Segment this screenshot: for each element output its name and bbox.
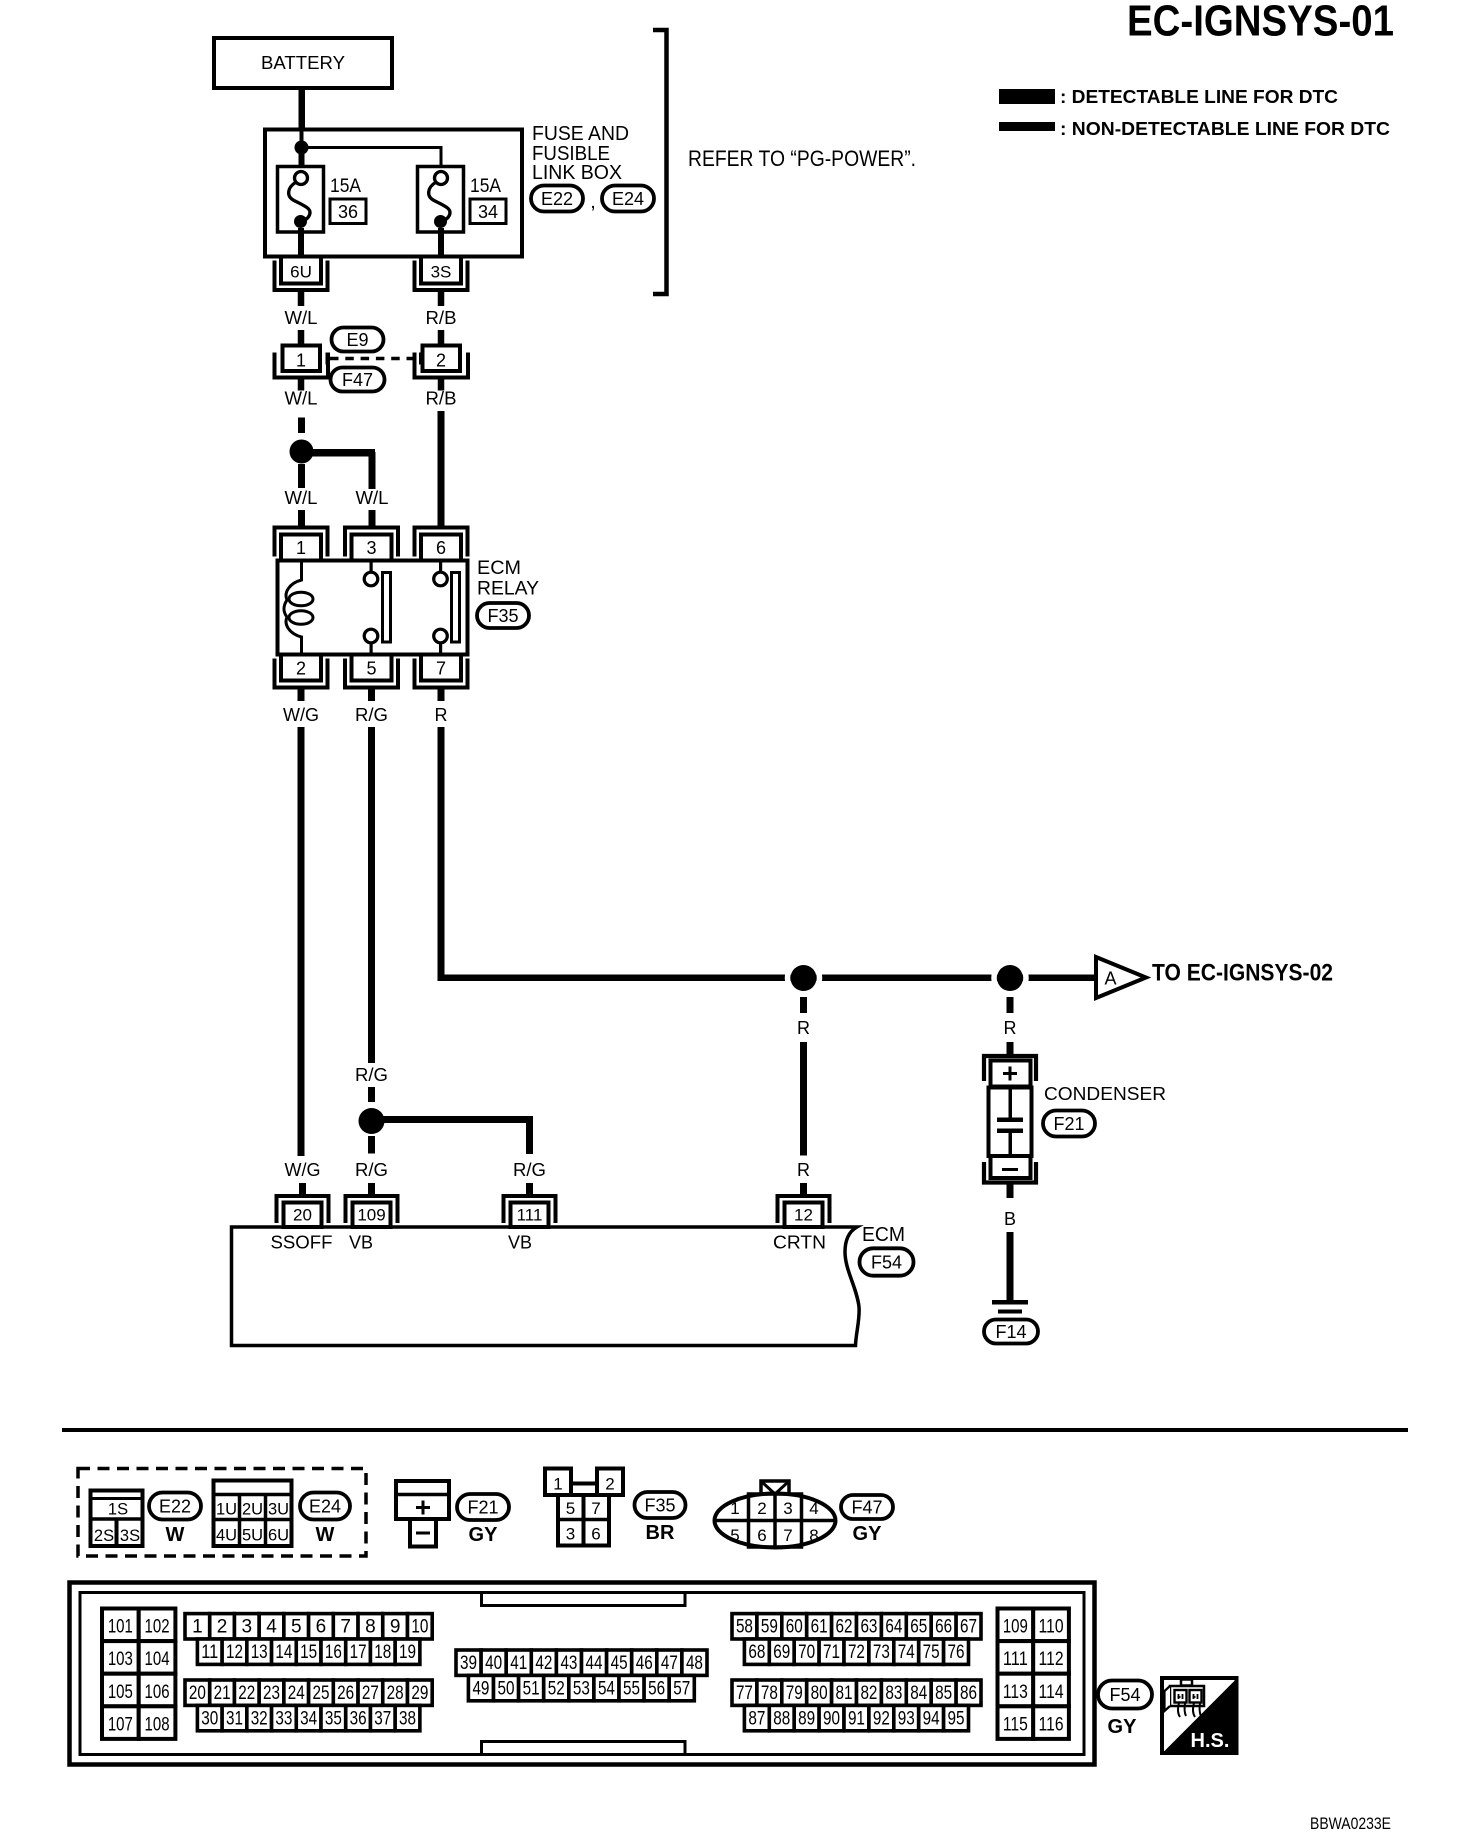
wire R/G stub into 111 xyxy=(526,1183,533,1195)
svg-text:: NON-DETECTABLE LINE FOR DTC: : NON-DETECTABLE LINE FOR DTC xyxy=(1060,119,1390,139)
svg-text:4: 4 xyxy=(809,1499,818,1518)
svg-text:W/G: W/G xyxy=(283,705,319,725)
wire condenser stub below xyxy=(1007,1184,1014,1198)
connector E24 oval xyxy=(602,186,654,212)
wire R stub into pin 12 xyxy=(800,1183,807,1195)
svg-text:67: 67 xyxy=(960,1617,977,1638)
svg-text:46: 46 xyxy=(636,1653,653,1674)
svg-text:LINK BOX: LINK BOX xyxy=(532,162,622,184)
connector E24 view oval xyxy=(300,1493,350,1520)
svg-text:35: 35 xyxy=(325,1708,342,1729)
connector E22 oval xyxy=(531,186,583,212)
svg-text:110: 110 xyxy=(1039,1617,1064,1638)
connector view F35 xyxy=(545,1469,571,1496)
svg-text:5: 5 xyxy=(366,659,376,679)
svg-text:R/B: R/B xyxy=(426,389,457,409)
connector view E24 xyxy=(214,1481,292,1547)
svg-text:VB: VB xyxy=(349,1233,373,1253)
svg-text:63: 63 xyxy=(860,1617,877,1638)
svg-text:54: 54 xyxy=(598,1678,615,1699)
svg-text:25: 25 xyxy=(312,1683,329,1704)
svg-text:12: 12 xyxy=(226,1642,243,1663)
relay pin 3 xyxy=(345,528,398,557)
svg-text:84: 84 xyxy=(910,1683,927,1704)
svg-text:26: 26 xyxy=(337,1683,354,1704)
svg-text:E22: E22 xyxy=(541,189,573,209)
wire R stub to condenser xyxy=(1007,1042,1014,1055)
wire R/G branch to VB 111 xyxy=(372,1116,534,1123)
svg-text:14: 14 xyxy=(275,1642,292,1663)
wire 3S stub xyxy=(438,290,445,306)
svg-text:6: 6 xyxy=(591,1525,600,1544)
condenser minus terminal xyxy=(991,1156,1031,1178)
svg-text:15A: 15A xyxy=(330,176,361,197)
svg-text:64: 64 xyxy=(885,1617,902,1638)
ECM connector cells 68-76 xyxy=(744,1639,769,1664)
wire W/L below junction xyxy=(298,464,305,488)
svg-text:38: 38 xyxy=(399,1708,416,1729)
junction node R to condenser xyxy=(994,962,1026,994)
svg-text:105: 105 xyxy=(108,1682,133,1703)
svg-text:REFER TO “PG-POWER”.: REFER TO “PG-POWER”. xyxy=(688,146,916,171)
svg-text:2U: 2U xyxy=(242,1501,263,1519)
svg-text:R/G: R/G xyxy=(355,705,388,725)
svg-text:R/G: R/G xyxy=(355,1065,388,1085)
junction node R to CRTN xyxy=(788,962,820,994)
svg-text:70: 70 xyxy=(798,1642,815,1663)
wire into relay pin 1 xyxy=(298,510,305,528)
legend non-detectable line bar xyxy=(999,122,1055,131)
svg-text:9: 9 xyxy=(390,1617,401,1638)
wire below connector 2 xyxy=(438,378,445,391)
svg-text:1: 1 xyxy=(553,1475,562,1494)
terminal 3S xyxy=(415,261,468,291)
svg-text:48: 48 xyxy=(686,1653,703,1674)
svg-text:71: 71 xyxy=(823,1642,840,1663)
svg-text:42: 42 xyxy=(535,1653,552,1674)
svg-text:88: 88 xyxy=(773,1708,790,1729)
svg-text:F35: F35 xyxy=(644,1496,675,1516)
svg-text:R: R xyxy=(797,1160,810,1180)
node battery feed junction xyxy=(300,129,304,149)
relay contact 6-7 xyxy=(439,562,442,573)
wire 6U stub xyxy=(298,290,305,306)
svg-text:W/L: W/L xyxy=(285,308,318,328)
wire R/G stub into 109 xyxy=(368,1183,375,1195)
wire R drop to condenser xyxy=(1007,997,1014,1013)
svg-text:: DETECTABLE LINE FOR DTC: : DETECTABLE LINE FOR DTC xyxy=(1060,87,1338,107)
svg-text:24: 24 xyxy=(288,1683,305,1704)
svg-text:ECM: ECM xyxy=(862,1224,905,1246)
svg-text:CONDENSER: CONDENSER xyxy=(1044,1084,1166,1104)
svg-text:60: 60 xyxy=(786,1617,803,1638)
svg-text:21: 21 xyxy=(214,1683,231,1704)
ECM connector cells 87-95 xyxy=(744,1705,769,1730)
fuse 15A 36 xyxy=(278,167,324,233)
wire W/G long xyxy=(298,727,305,1156)
svg-text:7: 7 xyxy=(783,1526,792,1545)
svg-text:12: 12 xyxy=(794,1206,813,1225)
svg-text:34: 34 xyxy=(478,202,498,222)
svg-text:1S: 1S xyxy=(108,1501,128,1519)
svg-text:R/B: R/B xyxy=(426,308,457,328)
svg-text:E24: E24 xyxy=(309,1497,341,1517)
wire W/L branch xyxy=(301,449,375,457)
condenser C1 body xyxy=(989,1088,1032,1157)
svg-text:2: 2 xyxy=(757,1499,766,1518)
svg-text:58: 58 xyxy=(736,1617,753,1638)
svg-text:F35: F35 xyxy=(487,606,518,626)
battery B1 xyxy=(214,38,392,88)
svg-text:55: 55 xyxy=(623,1678,640,1699)
svg-text:101: 101 xyxy=(108,1617,133,1638)
svg-text:59: 59 xyxy=(761,1617,778,1638)
svg-text:39: 39 xyxy=(460,1653,477,1674)
wire junction to fuse 34 xyxy=(302,148,442,173)
svg-text:GY: GY xyxy=(469,1524,499,1546)
ECM connector inner box xyxy=(80,1593,1084,1755)
svg-text:19: 19 xyxy=(399,1642,416,1663)
svg-text:77: 77 xyxy=(736,1683,753,1704)
connector view F21 xyxy=(396,1481,449,1519)
svg-text:102: 102 xyxy=(145,1617,170,1638)
fuse number 34 box xyxy=(470,199,506,224)
connector F35 view oval xyxy=(635,1492,686,1518)
connector E22 view oval xyxy=(149,1493,201,1520)
svg-text:3: 3 xyxy=(366,538,376,558)
svg-text:3: 3 xyxy=(783,1499,792,1518)
connector view F47 xyxy=(715,1494,836,1548)
svg-text:3S: 3S xyxy=(431,263,452,282)
svg-text:20: 20 xyxy=(189,1683,206,1704)
svg-text:27: 27 xyxy=(362,1683,379,1704)
svg-text:15: 15 xyxy=(300,1642,317,1663)
svg-text:107: 107 xyxy=(108,1714,133,1735)
svg-text:5: 5 xyxy=(566,1499,575,1518)
svg-text:5U: 5U xyxy=(242,1527,263,1545)
wire into relay pin 3 xyxy=(369,510,376,528)
wire below connector 1 xyxy=(298,378,305,391)
svg-text:109: 109 xyxy=(1003,1617,1028,1638)
ECM box xyxy=(232,1227,860,1346)
svg-text:45: 45 xyxy=(611,1653,628,1674)
svg-text:2: 2 xyxy=(436,351,446,371)
connector F47 view oval xyxy=(841,1495,893,1519)
svg-text:83: 83 xyxy=(885,1683,902,1704)
junction node R/G xyxy=(359,1108,385,1134)
svg-text:104: 104 xyxy=(145,1649,170,1670)
svg-text:81: 81 xyxy=(836,1683,853,1704)
svg-text:73: 73 xyxy=(873,1642,890,1663)
ground F14 xyxy=(992,1300,1028,1305)
svg-text:2: 2 xyxy=(605,1475,614,1494)
relay pin 7 xyxy=(415,659,468,688)
svg-text:89: 89 xyxy=(798,1708,815,1729)
svg-text:7: 7 xyxy=(340,1617,351,1638)
svg-text:43: 43 xyxy=(560,1653,577,1674)
svg-text:A: A xyxy=(1104,969,1116,989)
svg-text:85: 85 xyxy=(935,1683,952,1704)
svg-text:CRTN: CRTN xyxy=(773,1233,826,1253)
svg-text:78: 78 xyxy=(761,1683,778,1704)
svg-text:92: 92 xyxy=(873,1708,890,1729)
connector F21 view oval xyxy=(457,1494,509,1520)
svg-text:86: 86 xyxy=(960,1683,977,1704)
svg-text:61: 61 xyxy=(811,1617,828,1638)
svg-text:11: 11 xyxy=(201,1642,218,1663)
fuse and fusible link box xyxy=(265,130,522,257)
wire R/B long to relay pin 6 xyxy=(438,411,445,528)
connector F54 oval (ECM) xyxy=(860,1248,914,1275)
svg-text:E9: E9 xyxy=(346,330,368,350)
svg-text:109: 109 xyxy=(357,1206,385,1225)
svg-text:44: 44 xyxy=(586,1653,603,1674)
dashed mating line E9-F47 xyxy=(330,357,418,361)
wire R vertical xyxy=(438,727,445,981)
ECM connector cells 1-10 xyxy=(185,1614,210,1639)
svg-text:49: 49 xyxy=(472,1678,489,1699)
connector F47 oval (inline) xyxy=(331,368,385,392)
wire stub below pin 5 xyxy=(368,688,375,702)
wire battery to fuse box xyxy=(299,88,306,130)
svg-text:F21: F21 xyxy=(467,1498,498,1518)
H.S. view icon xyxy=(1162,1678,1237,1753)
svg-text:79: 79 xyxy=(786,1683,803,1704)
svg-text:16: 16 xyxy=(325,1642,342,1663)
svg-text:3: 3 xyxy=(242,1617,253,1638)
svg-text:7: 7 xyxy=(436,659,446,679)
wire junction to fuse 36 xyxy=(299,152,305,173)
svg-text:4: 4 xyxy=(266,1617,277,1638)
svg-text:76: 76 xyxy=(948,1642,965,1663)
ECM pin 12 xyxy=(778,1196,830,1223)
svg-text:6: 6 xyxy=(757,1526,766,1545)
svg-text:17: 17 xyxy=(350,1642,367,1663)
svg-text:ECM: ECM xyxy=(477,558,521,579)
ECM connector cells 39-48 xyxy=(456,1650,481,1675)
svg-text:108: 108 xyxy=(145,1714,170,1735)
svg-text:F47: F47 xyxy=(342,370,373,390)
svg-text:22: 22 xyxy=(238,1683,255,1704)
ECM connector cells 58-67 xyxy=(732,1614,757,1639)
svg-text:29: 29 xyxy=(411,1683,428,1704)
svg-text:,: , xyxy=(590,191,596,213)
svg-text:13: 13 xyxy=(251,1642,268,1663)
svg-text:3: 3 xyxy=(566,1525,575,1544)
svg-text:F21: F21 xyxy=(1053,1114,1084,1134)
svg-text:75: 75 xyxy=(923,1642,940,1663)
svg-text:SSOFF: SSOFF xyxy=(271,1233,333,1253)
svg-text:F47: F47 xyxy=(851,1498,882,1518)
wire R/G seg above junction xyxy=(368,1087,375,1102)
svg-text:106: 106 xyxy=(145,1682,170,1703)
svg-text:114: 114 xyxy=(1039,1682,1064,1703)
dashed group box E22 E24 xyxy=(78,1469,366,1557)
svg-text:15A: 15A xyxy=(470,176,501,197)
legend detectable line bar xyxy=(999,89,1055,104)
svg-text:10: 10 xyxy=(411,1617,428,1638)
ECM connector bottom notch xyxy=(482,1742,686,1755)
svg-text:47: 47 xyxy=(661,1653,678,1674)
ECM connector cells 30-38 xyxy=(197,1705,222,1730)
wire W/L to junction xyxy=(298,418,305,434)
ECM connector cells 11-19 xyxy=(197,1639,222,1664)
svg-text:5: 5 xyxy=(291,1617,302,1638)
svg-text:18: 18 xyxy=(374,1642,391,1663)
svg-text:H.S.: H.S. xyxy=(1191,1730,1230,1752)
svg-text:R/G: R/G xyxy=(355,1160,388,1180)
svg-text:6U: 6U xyxy=(268,1527,289,1545)
ECM pin 111 xyxy=(504,1196,556,1223)
junction node W/L xyxy=(290,440,314,464)
svg-text:36: 36 xyxy=(350,1708,367,1729)
svg-text:66: 66 xyxy=(935,1617,952,1638)
separator line xyxy=(62,1428,1408,1432)
svg-text:1: 1 xyxy=(192,1617,203,1638)
svg-text:R: R xyxy=(435,705,448,725)
svg-text:W/L: W/L xyxy=(285,389,318,409)
svg-text:2: 2 xyxy=(296,659,306,679)
connector view F47 keyway xyxy=(761,1481,789,1495)
ECM pin 109 xyxy=(346,1196,398,1223)
svg-text:72: 72 xyxy=(848,1642,865,1663)
inline connector terminal 2 xyxy=(423,346,461,372)
svg-text:W: W xyxy=(166,1524,185,1546)
svg-text:62: 62 xyxy=(836,1617,853,1638)
svg-text:BR: BR xyxy=(646,1522,675,1544)
wire R/B into connector 2 xyxy=(438,330,445,346)
svg-text:GY: GY xyxy=(853,1523,883,1545)
svg-text:FUSE AND: FUSE AND xyxy=(532,123,629,145)
arrow A to EC-IGNSYS-02 xyxy=(1096,957,1146,998)
svg-text:65: 65 xyxy=(910,1617,927,1638)
svg-text:93: 93 xyxy=(898,1708,915,1729)
svg-text:E22: E22 xyxy=(159,1497,191,1517)
terminal 6U xyxy=(275,261,328,291)
svg-text:GY: GY xyxy=(1108,1716,1138,1738)
svg-text:EC-IGNSYS-01: EC-IGNSYS-01 xyxy=(1127,0,1394,46)
svg-text:116: 116 xyxy=(1039,1714,1064,1735)
svg-text:87: 87 xyxy=(748,1708,765,1729)
relay contact 3-5 xyxy=(370,562,373,573)
svg-text:32: 32 xyxy=(251,1708,268,1729)
svg-text:91: 91 xyxy=(848,1708,865,1729)
inline connector terminal 1 xyxy=(283,346,321,372)
svg-text:94: 94 xyxy=(923,1708,940,1729)
svg-text:20: 20 xyxy=(293,1206,312,1225)
connector F14 oval (ground) xyxy=(984,1320,1038,1344)
wire stub below pin 2 xyxy=(298,688,305,702)
svg-text:51: 51 xyxy=(523,1678,540,1699)
svg-text:31: 31 xyxy=(226,1708,243,1729)
svg-text:F54: F54 xyxy=(1109,1685,1140,1705)
svg-text:BATTERY: BATTERY xyxy=(261,53,345,73)
fuse 15A 34 xyxy=(418,167,464,233)
svg-text:95: 95 xyxy=(948,1708,965,1729)
svg-text:103: 103 xyxy=(108,1649,133,1670)
relay pin 5 xyxy=(345,659,398,688)
svg-text:36: 36 xyxy=(338,202,358,222)
svg-text:69: 69 xyxy=(773,1642,790,1663)
svg-text:F14: F14 xyxy=(995,1322,1026,1342)
svg-text:RELAY: RELAY xyxy=(477,579,539,600)
wire R/G long xyxy=(368,727,375,1063)
svg-text:41: 41 xyxy=(510,1653,527,1674)
svg-text:W: W xyxy=(316,1524,335,1546)
svg-text:57: 57 xyxy=(673,1678,690,1699)
svg-text:80: 80 xyxy=(811,1683,828,1704)
svg-text:111: 111 xyxy=(1003,1649,1028,1670)
ECM connector outer box xyxy=(70,1583,1095,1765)
wire W/G label gap stub xyxy=(299,1183,306,1195)
svg-text:111: 111 xyxy=(517,1206,543,1225)
wire W/L into connector 1 xyxy=(298,330,305,346)
svg-text:1: 1 xyxy=(296,351,306,371)
svg-text:112: 112 xyxy=(1039,1649,1064,1670)
svg-text:34: 34 xyxy=(300,1708,317,1729)
svg-text:2S: 2S xyxy=(94,1527,114,1545)
svg-text:B: B xyxy=(1004,1209,1016,1229)
relay pin 1 xyxy=(275,528,328,557)
svg-text:4U: 4U xyxy=(216,1527,237,1545)
svg-text:90: 90 xyxy=(823,1708,840,1729)
svg-text:5: 5 xyxy=(730,1526,739,1545)
svg-text:53: 53 xyxy=(573,1678,590,1699)
relay pin 6 xyxy=(415,528,468,557)
ECM connector cells 77-86 xyxy=(732,1680,757,1705)
ECM connector cells 20-29 xyxy=(185,1680,210,1705)
svg-text:8: 8 xyxy=(809,1526,818,1545)
svg-text:6: 6 xyxy=(436,538,446,558)
svg-text:28: 28 xyxy=(387,1683,404,1704)
wire R drop to CRTN lower xyxy=(800,1042,807,1156)
svg-text:TO EC-IGNSYS-02: TO EC-IGNSYS-02 xyxy=(1152,960,1333,987)
svg-text:30: 30 xyxy=(201,1708,218,1729)
svg-text:23: 23 xyxy=(263,1683,280,1704)
svg-text:8: 8 xyxy=(365,1617,376,1638)
svg-text:1: 1 xyxy=(730,1499,739,1518)
wire R/G seg below junction xyxy=(368,1136,375,1154)
svg-text:37: 37 xyxy=(374,1708,391,1729)
svg-text:W/L: W/L xyxy=(356,488,389,508)
svg-text:W/G: W/G xyxy=(285,1160,321,1180)
ECM relay box xyxy=(278,561,468,655)
svg-text:R: R xyxy=(797,1018,810,1038)
svg-text:82: 82 xyxy=(860,1683,877,1704)
fuse number 36 box xyxy=(330,199,366,224)
connector F35 oval (relay) xyxy=(477,603,529,628)
svg-text:113: 113 xyxy=(1003,1682,1028,1703)
svg-text:1U: 1U xyxy=(216,1501,237,1519)
svg-text:3U: 3U xyxy=(268,1501,289,1519)
ECM connector top notch xyxy=(482,1593,686,1606)
svg-text:74: 74 xyxy=(898,1642,915,1663)
svg-text:7: 7 xyxy=(591,1499,600,1518)
svg-text:115: 115 xyxy=(1003,1714,1028,1735)
svg-text:6: 6 xyxy=(316,1617,327,1638)
svg-text:2: 2 xyxy=(217,1617,228,1638)
svg-text:E24: E24 xyxy=(612,189,644,209)
svg-text:W/L: W/L xyxy=(285,488,318,508)
svg-text:52: 52 xyxy=(548,1678,565,1699)
svg-text:68: 68 xyxy=(748,1642,765,1663)
bracket refer note xyxy=(653,30,667,294)
connector E9 oval xyxy=(332,328,384,352)
svg-text:6U: 6U xyxy=(290,263,312,282)
relay coil xyxy=(284,561,302,654)
svg-text:BBWA0233E: BBWA0233E xyxy=(1310,1815,1391,1833)
svg-text:F54: F54 xyxy=(871,1253,902,1273)
